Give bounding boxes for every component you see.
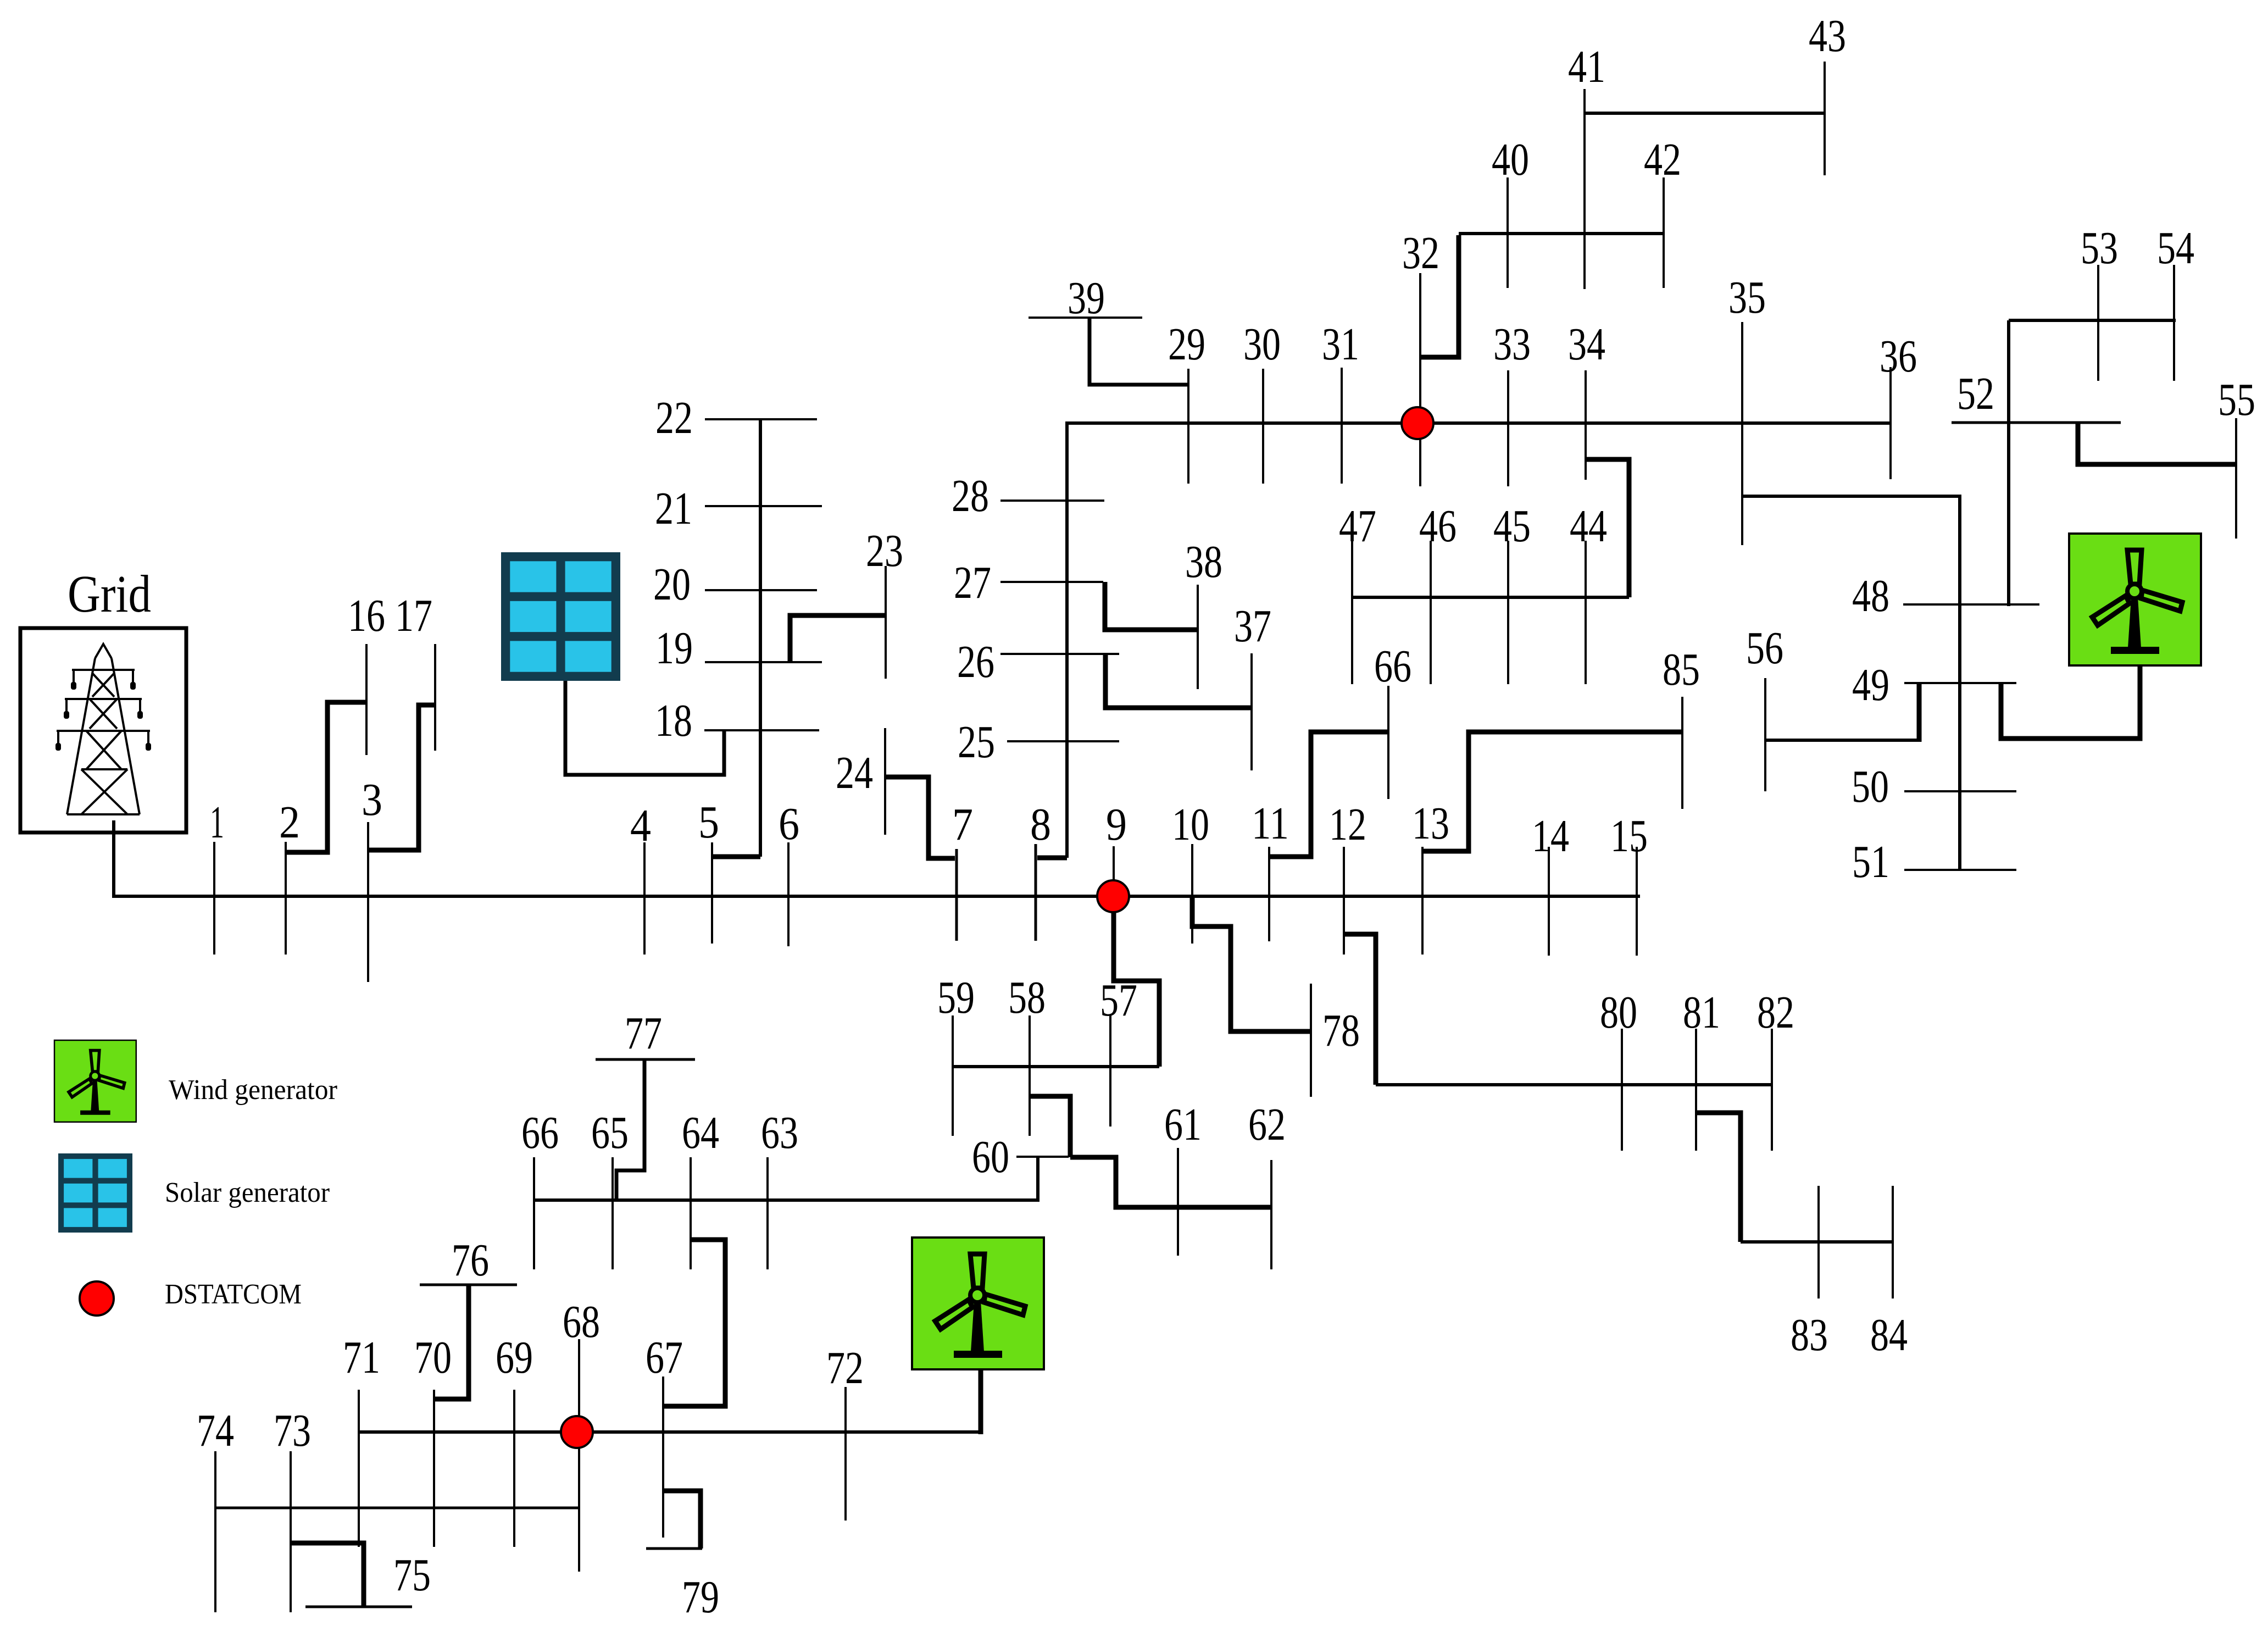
svg-text:Solar generator: Solar generator bbox=[165, 1177, 330, 1208]
wire feeder 63-66 bbox=[534, 1198, 1038, 1202]
wire bus12 to feeder 80-82 bbox=[1344, 934, 1376, 1085]
wire feeder 73-74 bbox=[215, 1507, 579, 1510]
svg-text:45: 45 bbox=[1493, 501, 1531, 552]
svg-text:22: 22 bbox=[655, 392, 693, 443]
bus 81 tick bbox=[1695, 1029, 1697, 1151]
svg-text:48: 48 bbox=[1852, 570, 1889, 621]
svg-text:40: 40 bbox=[1492, 134, 1529, 185]
bus 1 tick bbox=[213, 842, 215, 954]
svg-text:34: 34 bbox=[1568, 319, 1605, 370]
svg-text:75: 75 bbox=[393, 1550, 431, 1601]
svg-text:16: 16 bbox=[348, 590, 385, 641]
legend solar generator icon bbox=[58, 1153, 132, 1233]
bus 7 tick bbox=[955, 849, 958, 941]
bus 78 tick bbox=[1310, 984, 1312, 1097]
svg-text:8: 8 bbox=[1030, 799, 1051, 850]
bus 67 tick bbox=[662, 1377, 664, 1538]
wire riser 49 bbox=[1917, 683, 1922, 742]
bus 62 tick bbox=[1270, 1160, 1272, 1269]
solar generator panel bbox=[501, 552, 620, 681]
wire bus67 to 79 bbox=[663, 1491, 701, 1549]
wire bus70 to 76 bbox=[434, 1285, 469, 1399]
legend DSTATCOM dot bbox=[80, 1281, 114, 1316]
svg-text:83: 83 bbox=[1791, 1309, 1828, 1361]
bus 30 tick bbox=[1262, 369, 1264, 484]
wire feeder 57-59 bbox=[953, 1065, 1159, 1068]
svg-text:70: 70 bbox=[414, 1332, 452, 1383]
bus 33 tick bbox=[1507, 370, 1509, 486]
wire bus58 to 60 bbox=[1030, 1096, 1070, 1157]
svg-text:2: 2 bbox=[279, 797, 300, 848]
wire feeder 56-49 bbox=[1765, 739, 1919, 742]
svg-text:58: 58 bbox=[1008, 972, 1046, 1023]
svg-text:4: 4 bbox=[630, 800, 651, 851]
svg-text:1: 1 bbox=[210, 797, 224, 848]
bus 66 lower tick bbox=[533, 1157, 535, 1269]
svg-text:38: 38 bbox=[1185, 536, 1222, 587]
svg-text:57: 57 bbox=[1100, 975, 1137, 1026]
svg-text:51: 51 bbox=[1852, 836, 1889, 887]
svg-text:10: 10 bbox=[1172, 799, 1209, 850]
wire feeder 80-82 bbox=[1376, 1083, 1772, 1086]
wire feeder 53-54 bbox=[2009, 319, 2176, 322]
DSTATCOM dot at bus 9 bbox=[1097, 880, 1129, 912]
bus 57 tick bbox=[1109, 1015, 1111, 1126]
bus 48 tick bbox=[1903, 603, 2039, 606]
wire 39 branch bbox=[1089, 319, 1188, 385]
bus 85 tick bbox=[1681, 697, 1683, 809]
svg-text:32: 32 bbox=[1402, 227, 1439, 279]
wire bus19 to 23 bbox=[790, 615, 886, 662]
wind generator 1 (right) bbox=[2069, 534, 2201, 665]
bus 17 tick bbox=[434, 644, 436, 751]
bus 73 tick bbox=[290, 1451, 292, 1612]
svg-text:20: 20 bbox=[653, 559, 691, 610]
bus 40 tick bbox=[1507, 177, 1509, 288]
svg-text:26: 26 bbox=[957, 636, 994, 687]
wire bus35 to trunk 48-51 bbox=[1742, 496, 1960, 870]
wire solar to bus18 bbox=[565, 679, 724, 775]
bus 35 tick bbox=[1741, 322, 1743, 545]
wire feeder 41-43 bbox=[1585, 112, 1825, 115]
svg-text:42: 42 bbox=[1644, 134, 1681, 185]
bus 29 tick bbox=[1187, 369, 1189, 484]
svg-text:15: 15 bbox=[1610, 811, 1648, 862]
wind generator 2 (bottom) bbox=[912, 1237, 1044, 1369]
wire bus11 to 66 bbox=[1269, 732, 1388, 857]
grid transmission tower icon bbox=[57, 644, 150, 814]
svg-text:44: 44 bbox=[1570, 501, 1607, 552]
bus 71 tick bbox=[358, 1390, 360, 1547]
bus 47 tick bbox=[1351, 541, 1353, 684]
svg-text:61: 61 bbox=[1164, 1099, 1202, 1150]
wire bus49 to wind generator 1 bbox=[2001, 662, 2140, 739]
bus 75 tick bbox=[305, 1606, 412, 1608]
wire grid drop bbox=[112, 820, 115, 898]
bus 24 tick bbox=[884, 728, 886, 835]
svg-text:64: 64 bbox=[682, 1107, 719, 1158]
bus 74 tick bbox=[214, 1451, 216, 1612]
wire feeder 67-74 lower bbox=[359, 1430, 981, 1434]
wire riser 60 bbox=[1036, 1157, 1039, 1202]
svg-text:36: 36 bbox=[1880, 331, 1917, 382]
bus 84 tick bbox=[1892, 1186, 1894, 1298]
svg-text:13: 13 bbox=[1412, 798, 1449, 849]
svg-text:78: 78 bbox=[1322, 1005, 1360, 1056]
svg-text:66: 66 bbox=[521, 1107, 559, 1158]
svg-text:66: 66 bbox=[1374, 641, 1411, 692]
svg-text:71: 71 bbox=[343, 1332, 380, 1383]
bus 11 tick bbox=[1268, 847, 1270, 941]
svg-text:DSTATCOM: DSTATCOM bbox=[165, 1279, 302, 1310]
wire trunk 18-22 bbox=[759, 419, 762, 857]
svg-text:72: 72 bbox=[826, 1342, 864, 1394]
bus 19 tick bbox=[705, 661, 822, 663]
svg-text:49: 49 bbox=[1852, 659, 1889, 711]
svg-text:41: 41 bbox=[1568, 41, 1605, 92]
bus 82 tick bbox=[1771, 1029, 1773, 1151]
bus 65 tick bbox=[612, 1157, 614, 1269]
svg-text:30: 30 bbox=[1243, 319, 1281, 370]
bus 8 tick bbox=[1035, 844, 1037, 941]
svg-text:43: 43 bbox=[1809, 10, 1846, 62]
bus 42 tick bbox=[1663, 177, 1665, 288]
wire bus73 to 75 bbox=[291, 1543, 364, 1607]
wire trunk 77 bbox=[616, 1059, 644, 1200]
wire bus9 to feeder 57-59 bbox=[1114, 896, 1159, 1067]
wire bus13 to 85 bbox=[1422, 732, 1682, 851]
svg-text:31: 31 bbox=[1322, 319, 1359, 370]
wire bus52 to 55 bbox=[2078, 424, 2236, 464]
bus 37 tick bbox=[1250, 653, 1253, 770]
bus 31 tick bbox=[1341, 368, 1343, 484]
svg-text:62: 62 bbox=[1248, 1099, 1286, 1150]
bus 58 tick bbox=[1029, 1015, 1031, 1136]
bus 22 tick bbox=[705, 418, 817, 420]
bus 60 tick bbox=[1016, 1156, 1069, 1158]
bus 32 tick bbox=[1419, 273, 1421, 486]
bus 28 tick bbox=[1000, 500, 1104, 502]
svg-text:54: 54 bbox=[2157, 223, 2194, 274]
svg-text:35: 35 bbox=[1728, 272, 1766, 323]
bus 80 tick bbox=[1621, 1029, 1623, 1151]
bus 64 tick bbox=[690, 1157, 692, 1269]
svg-text:79: 79 bbox=[682, 1572, 719, 1623]
wire bus5 to trunk 18-22 bbox=[712, 854, 760, 859]
wire bus27 to 38 bbox=[1105, 582, 1198, 630]
svg-text:53: 53 bbox=[2081, 223, 2118, 274]
bus 5 tick bbox=[711, 842, 713, 944]
wire bus64 to 67 bbox=[663, 1240, 725, 1406]
bus 53 tick bbox=[2097, 265, 2099, 381]
bus 68 tick bbox=[578, 1339, 580, 1572]
svg-text:Grid: Grid bbox=[68, 564, 151, 623]
wire bus26 to 37 bbox=[1105, 654, 1252, 708]
wire bus32 to feeder 40-42 bbox=[1420, 235, 1459, 357]
svg-text:18: 18 bbox=[655, 695, 692, 746]
svg-text:65: 65 bbox=[591, 1107, 629, 1158]
wire bus10 to 78 bbox=[1192, 896, 1311, 1031]
wire bus2 to 16 bbox=[286, 702, 366, 852]
svg-text:17: 17 bbox=[395, 590, 432, 641]
bus 50 tick bbox=[1904, 790, 2016, 792]
bus 21 tick bbox=[705, 505, 822, 507]
wire feeder 40-42 bbox=[1459, 232, 1664, 235]
svg-text:67: 67 bbox=[646, 1332, 683, 1383]
bus 14 tick bbox=[1548, 847, 1550, 956]
wire trunk25-28 to bus8 bbox=[1037, 856, 1067, 861]
svg-text:3: 3 bbox=[362, 774, 382, 825]
bus 83 tick bbox=[1817, 1186, 1820, 1298]
bus 54 tick bbox=[2173, 265, 2175, 381]
bus 3 tick bbox=[367, 822, 369, 982]
bus 34 tick bbox=[1585, 370, 1587, 480]
bus 6 tick bbox=[787, 842, 790, 946]
svg-text:19: 19 bbox=[655, 623, 693, 674]
bus 56 tick bbox=[1764, 678, 1766, 791]
bus 49 tick bbox=[1904, 682, 2016, 684]
svg-text:25: 25 bbox=[958, 717, 995, 768]
svg-text:59: 59 bbox=[937, 972, 975, 1023]
bus 38 tick bbox=[1197, 585, 1199, 689]
svg-text:5: 5 bbox=[698, 797, 719, 848]
bus 61 tick bbox=[1177, 1148, 1179, 1256]
svg-text:60: 60 bbox=[972, 1131, 1009, 1183]
wire main feeder 1-15 bbox=[114, 895, 1640, 898]
grid box bbox=[20, 628, 186, 833]
wire bus81 to feeder 83-84 bbox=[1696, 1113, 1741, 1242]
bus 43 tick bbox=[1824, 62, 1826, 175]
bus 39 tick bbox=[1029, 317, 1142, 319]
bus 25 tick bbox=[1007, 740, 1119, 742]
bus 27 tick bbox=[1000, 581, 1103, 583]
bus 16 tick bbox=[365, 644, 368, 755]
svg-text:52: 52 bbox=[1957, 368, 1994, 419]
svg-text:46: 46 bbox=[1419, 501, 1457, 552]
svg-text:77: 77 bbox=[625, 1008, 662, 1059]
wire bus24 to bus7 bbox=[885, 777, 955, 858]
svg-text:47: 47 bbox=[1339, 501, 1376, 552]
svg-text:84: 84 bbox=[1870, 1309, 1908, 1361]
svg-text:76: 76 bbox=[452, 1235, 489, 1286]
svg-text:73: 73 bbox=[274, 1405, 311, 1456]
wire bus34 to feeder 44-47 bbox=[1586, 459, 1629, 597]
bus 20 tick bbox=[705, 589, 817, 591]
bus 55 tick bbox=[2235, 418, 2237, 539]
bus 10 tick bbox=[1191, 844, 1193, 944]
svg-text:21: 21 bbox=[655, 483, 692, 534]
bus 76 tick bbox=[420, 1284, 517, 1286]
svg-text:81: 81 bbox=[1683, 987, 1720, 1038]
svg-text:74: 74 bbox=[197, 1405, 234, 1456]
wire feeder 52 bbox=[1952, 421, 2121, 424]
svg-text:24: 24 bbox=[836, 747, 873, 798]
bus 2 tick bbox=[285, 842, 287, 954]
bus 45 tick bbox=[1507, 541, 1509, 684]
bus 70 tick bbox=[433, 1390, 435, 1547]
bus 51 tick bbox=[1904, 869, 2016, 871]
wire bus60 to feeder 61-62 bbox=[1070, 1157, 1271, 1207]
svg-text:85: 85 bbox=[1663, 644, 1700, 695]
legend wind generator icon bbox=[54, 1040, 136, 1122]
wire wind generator 2 drop bbox=[979, 1362, 983, 1434]
svg-text:69: 69 bbox=[496, 1332, 533, 1383]
DSTATCOM dot at bus 68 bbox=[561, 1416, 593, 1448]
bus 44 tick bbox=[1585, 541, 1587, 684]
bus 41 tick bbox=[1583, 89, 1586, 289]
svg-text:37: 37 bbox=[1234, 601, 1271, 652]
svg-text:9: 9 bbox=[1106, 799, 1127, 850]
bus 13 tick bbox=[1421, 847, 1424, 954]
wire feeder 83-84 bbox=[1741, 1240, 1893, 1244]
svg-text:29: 29 bbox=[1168, 319, 1205, 370]
wire feeder 29-36 bbox=[1067, 421, 1891, 425]
wire trunk 52 bbox=[2007, 320, 2010, 606]
svg-text:56: 56 bbox=[1746, 623, 1783, 674]
svg-text:6: 6 bbox=[779, 798, 799, 850]
svg-text:27: 27 bbox=[954, 557, 991, 608]
svg-text:11: 11 bbox=[1252, 798, 1289, 849]
svg-text:55: 55 bbox=[2218, 374, 2255, 425]
svg-text:Wind generator: Wind generator bbox=[169, 1074, 337, 1106]
svg-text:82: 82 bbox=[1757, 987, 1794, 1038]
bus 4 tick bbox=[643, 842, 646, 954]
wire feeder 44-47 bbox=[1352, 596, 1629, 599]
bus 79 tick bbox=[646, 1547, 702, 1550]
svg-text:63: 63 bbox=[761, 1107, 798, 1158]
wire bus3 to 17 bbox=[368, 705, 435, 850]
svg-text:7: 7 bbox=[952, 799, 973, 850]
bus 9 tick bbox=[1113, 846, 1115, 941]
svg-text:14: 14 bbox=[1532, 811, 1569, 862]
bus 77 tick bbox=[596, 1058, 695, 1061]
bus 15 tick bbox=[1636, 847, 1638, 956]
bus 36 tick bbox=[1889, 367, 1892, 479]
svg-text:50: 50 bbox=[1852, 761, 1889, 812]
svg-text:68: 68 bbox=[563, 1296, 600, 1347]
bus 72 tick bbox=[844, 1387, 847, 1520]
bus 66 upper tick bbox=[1387, 686, 1389, 799]
bus 46 tick bbox=[1430, 541, 1432, 684]
bus 69 tick bbox=[513, 1390, 515, 1547]
svg-text:12: 12 bbox=[1329, 799, 1366, 850]
bus 26 tick bbox=[1000, 653, 1119, 655]
bus 18 tick bbox=[704, 729, 819, 731]
svg-text:28: 28 bbox=[952, 470, 989, 521]
svg-text:33: 33 bbox=[1493, 319, 1531, 370]
svg-text:80: 80 bbox=[1600, 987, 1637, 1038]
DSTATCOM dot at bus 32 bbox=[1402, 407, 1433, 439]
tower insulator dots bbox=[55, 682, 151, 751]
bus 12 tick bbox=[1343, 847, 1345, 954]
svg-text:23: 23 bbox=[866, 525, 903, 576]
bus 59 tick bbox=[952, 1015, 954, 1136]
bus 23 tick bbox=[885, 566, 887, 679]
svg-text:39: 39 bbox=[1068, 273, 1105, 324]
wire trunk 25-28 bbox=[1065, 421, 1069, 858]
bus 63 tick bbox=[766, 1157, 769, 1269]
